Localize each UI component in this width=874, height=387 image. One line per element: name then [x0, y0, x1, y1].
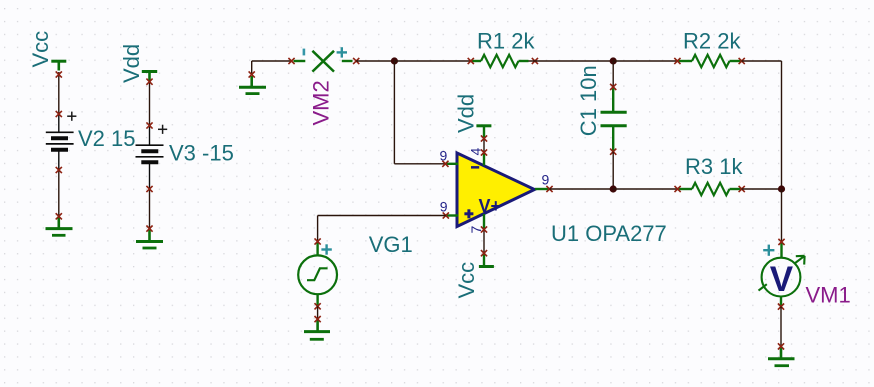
wire pin7 [483, 230, 485, 254]
resistor R1 [471, 55, 529, 67]
svg-text:Vdd: Vdd [119, 44, 144, 83]
capacitor C1 [601, 87, 627, 152]
wire right rail down [781, 61, 783, 189]
wire VM1 to ground [780, 307, 782, 347]
wire R2 to right rail [742, 60, 782, 62]
ground below V2 [46, 218, 73, 236]
svg-text:V3 -15: V3 -15 [169, 141, 234, 166]
voltmeter VM2 (X symbol) [294, 51, 353, 72]
svg-text:VG1: VG1 [369, 232, 413, 257]
C1 terminal x marks [610, 84, 616, 90]
wire node A to R1 [394, 60, 470, 62]
svg-text:R3 1k: R3 1k [685, 154, 743, 179]
svg-text:Vdd: Vdd [454, 94, 479, 133]
svg-text:R1 2k: R1 2k [477, 28, 535, 53]
wire VM2 to node A [356, 60, 394, 62]
top-left ground pin x mark [249, 71, 255, 77]
VM1 terminal x marks [778, 239, 784, 245]
svg-text:R2 2k: R2 2k [683, 28, 741, 53]
ground below VG1 [304, 319, 330, 339]
output pin stub [535, 188, 550, 190]
wire VG1 corner down [317, 216, 319, 242]
pin 7 x marks [481, 226, 487, 232]
VM2 minus terminal mark [303, 49, 306, 56]
ground at top-left [239, 76, 266, 94]
R2 terminal x marks [674, 58, 680, 64]
wire R3 to node D [742, 188, 782, 190]
minus mark inside [471, 166, 479, 169]
svg-text:Vcc: Vcc [454, 262, 479, 299]
wire top-left corner down [251, 61, 253, 75]
wire V3 bottom [149, 189, 151, 229]
svg-text:U1 OPA277: U1 OPA277 [551, 221, 667, 246]
pin 4 stub into triangle [483, 153, 485, 166]
junction node A [391, 57, 398, 64]
pin 4 x marks [481, 135, 487, 141]
wire VG1 to plus input [318, 215, 446, 217]
minus input pin stub [445, 163, 458, 165]
Vcc T-bar below op-amp (inverted) [479, 253, 494, 266]
wire VG1 to ground [317, 306, 319, 319]
op-amp U1 [445, 153, 549, 227]
svg-text:V+: V+ [479, 196, 502, 216]
VM1 plus terminal mark [763, 245, 774, 256]
resistor R2 [677, 55, 741, 67]
VM1 ground pin x mark [778, 343, 784, 349]
R1 terminal x marks [468, 58, 474, 64]
junction node D [778, 185, 785, 192]
svg-text:V2 15: V2 15 [78, 126, 136, 151]
generator VG1 [298, 242, 337, 307]
Vdd T-bar above op-amp [476, 126, 491, 139]
voltmeter VM1 [759, 242, 805, 307]
V3 branch pin x marks [146, 79, 152, 85]
power rail Vdd T-bar above V3 [142, 72, 157, 82]
VM2 plus terminal mark [337, 47, 347, 57]
resistor R3 [678, 183, 742, 195]
plus input pin stub [446, 214, 458, 216]
VG1 ground pin x mark [315, 316, 321, 322]
svg-text:VM2: VM2 [308, 80, 333, 125]
svg-text:C1 10n: C1 10n [576, 65, 601, 136]
VG1 terminal x marks [315, 238, 321, 244]
battery V3 [136, 125, 168, 189]
wire node B to R2 [613, 60, 677, 62]
wire V2 bottom [58, 170, 60, 216]
svg-text:9: 9 [440, 199, 448, 215]
pin 7 stub below triangle [483, 214, 485, 230]
battery V2 [46, 112, 77, 170]
svg-text:9: 9 [440, 147, 448, 163]
VG1 plus terminal mark [321, 244, 331, 254]
wire node D down to VM1 [781, 189, 783, 242]
wire op-amp output to node C [550, 188, 614, 190]
junction node B [610, 57, 617, 64]
svg-text:9: 9 [542, 171, 550, 187]
R3 terminal x marks [675, 186, 681, 192]
ground below VM1 [768, 346, 795, 365]
wire node C to R3 [613, 188, 677, 190]
plus mark inside [464, 209, 473, 218]
wire R1 to node B [529, 60, 614, 62]
svg-text:Vcc: Vcc [28, 31, 53, 68]
wire pin4 [483, 139, 485, 153]
wire to minus input [394, 163, 445, 165]
wire C1 to node C [612, 152, 614, 189]
wire node A down to op-amp minus input [393, 61, 395, 164]
wire top-left horizontal to VM2 [252, 60, 292, 62]
power rail Vcc T-bar above V2 [51, 61, 66, 70]
op-amp input/output pin x marks [442, 161, 448, 167]
V2 branch pin x marks [56, 71, 62, 77]
svg-text:VM1: VM1 [806, 283, 851, 308]
wire node B down to C1 [612, 61, 614, 87]
svg-text:V: V [770, 260, 794, 299]
VM2 terminal x marks [288, 58, 294, 64]
ground below V3 [136, 230, 163, 248]
junction node C [610, 185, 617, 192]
wire V3 top [149, 82, 151, 126]
wire V2 top [58, 72, 60, 114]
